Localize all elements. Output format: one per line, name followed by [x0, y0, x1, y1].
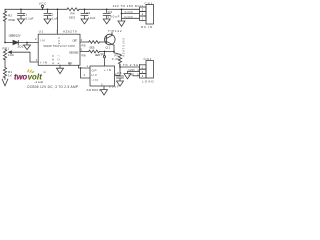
svg-text:GND: GND	[129, 68, 135, 72]
svg-text:VCC: VCC	[58, 37, 61, 44]
svg-text:GND: GND	[125, 10, 133, 14]
svg-text:LOAD: LOAD	[142, 79, 154, 83]
svg-text:CN1: CN1	[145, 1, 153, 5]
svg-text:U3: U3	[92, 73, 97, 77]
svg-text:0 TO 2.5A: 0 TO 2.5A	[119, 63, 138, 67]
svg-text:U1: U1	[39, 29, 44, 33]
svg-text:CN1: CN1	[144, 57, 152, 61]
svg-text:0E5: 0E5	[90, 45, 95, 49]
svg-text:OP: OP	[92, 68, 97, 72]
svg-text:AZ6279: AZ6279	[63, 30, 77, 34]
svg-text:OCB05 12V DC, 3 TO 2.5 AMP: OCB05 12V DC, 3 TO 2.5 AMP	[27, 85, 78, 89]
svg-text:0.1uF: 0.1uF	[26, 17, 34, 21]
svg-text:100uF: 100uF	[108, 14, 120, 18]
svg-text:1K: 1K	[8, 74, 12, 78]
svg-text:Q1: Q1	[106, 45, 111, 49]
svg-text:ZD1: ZD1	[18, 44, 24, 48]
svg-text:REF: REF	[68, 61, 73, 65]
svg-text:GND: GND	[125, 15, 133, 19]
svg-text:SENSE: SENSE	[69, 50, 79, 54]
svg-text:L8085-1.2V: L8085-1.2V	[9, 34, 21, 38]
svg-text:12V TO 15V DC/1: 12V TO 15V DC/1	[113, 4, 144, 8]
svg-text:GND: GND	[52, 55, 55, 64]
svg-text:R2: R2	[8, 13, 12, 17]
svg-text:R6: R6	[82, 53, 86, 57]
svg-text:.com: .com	[34, 80, 44, 84]
svg-text:TIP142: TIP142	[108, 29, 122, 33]
svg-text:10uF: 10uF	[109, 84, 119, 88]
svg-text:10K: 10K	[8, 53, 14, 57]
svg-text:0E5: 0E5	[69, 15, 75, 19]
svg-text:HEATSINK: HEATSINK	[123, 38, 126, 57]
svg-text:TP1: TP1	[100, 53, 105, 57]
svg-text:C3: C3	[86, 11, 90, 15]
svg-text:ADJ: ADJ	[57, 54, 60, 64]
svg-text:0.36: 0.36	[112, 57, 119, 61]
svg-text:VCC: VCC	[39, 1, 47, 5]
svg-text:OUT: OUT	[73, 39, 78, 43]
svg-text:-IN: -IN	[92, 78, 98, 82]
svg-text:470E: 470E	[8, 18, 15, 22]
svg-text:+IN: +IN	[40, 61, 47, 65]
svg-text:PR1: PR1	[3, 46, 10, 50]
svg-text:AD8603: AD8603	[87, 88, 101, 92]
svg-text:GND: GND	[128, 72, 134, 76]
svg-text:10uF: 10uF	[88, 16, 96, 20]
svg-text:two: two	[14, 72, 27, 81]
svg-text:1uF: 1uF	[52, 17, 58, 21]
svg-text:IN: IN	[41, 39, 45, 43]
svg-text:R5: R5	[82, 43, 86, 47]
svg-text:+IN: +IN	[104, 68, 111, 72]
svg-text:DC IN: DC IN	[141, 25, 152, 29]
svg-text:C6: C6	[117, 71, 122, 75]
